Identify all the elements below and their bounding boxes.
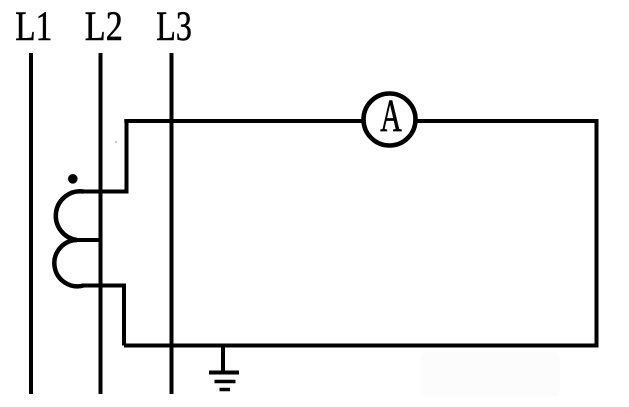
svg-text:L2: L2 — [85, 4, 123, 50]
svg-text:L3: L3 — [156, 4, 192, 50]
svg-text:A: A — [380, 90, 402, 141]
svg-text:L1: L1 — [15, 4, 52, 50]
